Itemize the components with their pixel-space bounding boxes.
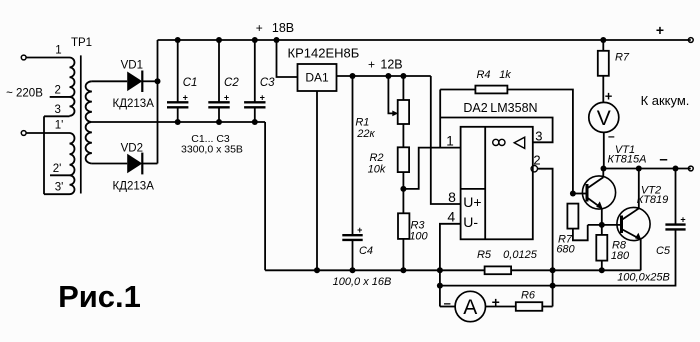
svg-text:3: 3 (54, 104, 60, 116)
node sense line at pin2 drop (550, 283, 556, 289)
svg-text:VD1: VD1 (121, 60, 143, 72)
wire: tap 3 lead (44, 115, 70, 117)
svg-text:LM358N: LM358N (490, 101, 537, 115)
svg-text:VD2: VD2 (121, 142, 143, 154)
svg-text:КТ819: КТ819 (637, 194, 669, 206)
node R3 bottom on bottom rail (400, 267, 406, 273)
wire: ground bus from secondary center tap (92, 121, 265, 123)
svg-text:–: – (444, 296, 451, 311)
svg-text:ТР1: ТР1 (71, 37, 92, 49)
wire: R2 to R3 (402, 172, 404, 213)
wire: R6 right to sense node riser (542, 306, 552, 308)
transformer TP1 primary winding lower (1'-2'-3') (70, 133, 75, 194)
svg-text:R6: R6 (521, 290, 536, 302)
resistor R1 22k (potentiometer) (398, 100, 409, 124)
svg-text:Рис.1: Рис.1 (58, 279, 141, 314)
svg-text:R5: R5 (477, 249, 492, 261)
node R1 wiper on +12V rail (385, 73, 391, 79)
node C2 bottom on ground bus (216, 119, 222, 125)
wire: VT2 collector to minus bus (638, 169, 640, 209)
svg-text:U-: U- (463, 214, 478, 230)
node pin2 line on bottom rail (550, 267, 556, 273)
svg-text:C5: C5 (656, 245, 671, 257)
svg-text:+: + (680, 215, 685, 225)
svg-text:3': 3' (55, 182, 64, 194)
svg-text:680: 680 (556, 244, 575, 256)
svg-text:+: + (183, 92, 188, 102)
wire: R3 to bottom rail (402, 239, 404, 270)
transistor VT1 KT815A (582, 176, 615, 209)
svg-text:22к: 22к (356, 128, 375, 140)
svg-text:+: + (224, 92, 229, 102)
wire: R7 to voltmeter (602, 76, 604, 103)
op-amp triangle symbol (514, 137, 525, 148)
node: rectifier output junction (155, 78, 161, 84)
wire: pin 2 to shunt sense node (538, 169, 553, 307)
wire: ground bus drop to bottom rail (264, 122, 266, 270)
svg-text:+: + (357, 225, 362, 235)
svg-text:12В: 12В (380, 58, 402, 72)
svg-text:1k: 1k (499, 69, 511, 81)
wire: +18V bus to DA1 input (277, 40, 298, 77)
wire: top terminal to primary start (pin 1) (26, 57, 69, 59)
svg-text:R2: R2 (369, 152, 383, 164)
voltmeter V (589, 102, 619, 132)
wire: 3' lead (44, 193, 70, 195)
node DA1 input on +18V bus (274, 37, 280, 43)
svg-text:1': 1' (55, 120, 64, 132)
svg-text:~ 220В: ~ 220В (6, 88, 43, 100)
wire: pin1 node over box to pin 3 (440, 118, 552, 143)
wire: rail to R1 (402, 76, 404, 100)
wire: VT2 emitter to bottom rail (640, 239, 642, 270)
svg-text:1: 1 (446, 134, 454, 149)
wire: VD1 cathode to junction (142, 80, 157, 82)
node C3 bottom on ground bus (252, 119, 258, 125)
svg-text:2: 2 (54, 85, 60, 97)
op-amp DA2 LM358N body (461, 127, 533, 240)
wire: DA1 ground pin down to bottom rail (316, 91, 318, 270)
node C1 top on +18V bus (175, 37, 181, 43)
wire: R8 bottom to bottom rail (601, 261, 603, 271)
svg-text:4: 4 (447, 209, 455, 225)
svg-text:R7: R7 (615, 52, 630, 64)
svg-text:3: 3 (535, 128, 542, 143)
svg-text:2': 2' (53, 163, 62, 175)
wire: VT2 base wire (588, 224, 622, 226)
svg-text:+: + (368, 58, 375, 72)
svg-text:V: V (597, 107, 611, 130)
svg-text:180: 180 (611, 250, 630, 262)
node pin4 line on bottom rail (437, 267, 443, 273)
svg-text:8: 8 (448, 189, 456, 205)
svg-text:+: + (260, 92, 265, 102)
capacitor C4 (352, 76, 354, 235)
diode VD1 (127, 72, 142, 92)
resistor R8 180 (596, 235, 607, 261)
node VT1 emitter / VT2 base / R8 (599, 222, 605, 228)
svg-text:+: + (656, 22, 664, 38)
svg-text:КД213А: КД213А (113, 98, 155, 110)
svg-text:A: A (463, 296, 477, 319)
diode VD2 (127, 154, 142, 174)
svg-text:2: 2 (533, 153, 540, 168)
terminal: mains input top (21, 55, 26, 60)
node sense line left (437, 283, 443, 289)
resistor R6 (516, 302, 543, 311)
op-amp pin 2 inversion bubble (531, 166, 537, 172)
svg-text:18В: 18В (272, 21, 294, 35)
capacitor C5 (675, 169, 677, 225)
transformer TP1 core (80, 55, 82, 193)
svg-text:+: + (256, 21, 263, 35)
wire: ammeter minus lead (440, 306, 455, 308)
svg-text:C2: C2 (224, 77, 239, 89)
node C2 top on +18V bus (216, 37, 222, 43)
wire: ammeter plus lead to R6 (486, 306, 516, 308)
wire: VT1 base wire (573, 193, 587, 195)
transformer TP1 secondary winding (86, 81, 92, 163)
node VT1 base (570, 191, 576, 197)
wire: pin 4 down to bottom rail and ammeter line (440, 224, 461, 307)
wire: tap 2' stub (50, 174, 70, 176)
wire: +12V rail from DA1 output (337, 75, 431, 77)
resistor R7 (voltmeter series) (598, 51, 609, 76)
node C3 top on +18V bus (252, 37, 258, 43)
node C5 top on minus bus (673, 166, 679, 172)
svg-text:DA1: DA1 (305, 71, 329, 85)
svg-text:R4: R4 (476, 69, 490, 81)
svg-text:+: + (605, 88, 613, 103)
svg-text:DA2: DA2 (463, 101, 487, 115)
svg-text:–: – (608, 129, 615, 143)
svg-text:U+: U+ (463, 194, 481, 210)
svg-text:R1: R1 (355, 117, 369, 129)
node R1 top on +12V rail (400, 73, 406, 79)
svg-text:100,0х25В: 100,0х25В (617, 272, 670, 284)
resistor R3 100 (398, 213, 409, 239)
wire: +18V top bus (158, 39, 691, 41)
svg-text:К аккум.: К аккум. (641, 93, 690, 108)
terminal: mains input bottom (21, 131, 26, 136)
wire: VD2 cathode riser to VD1 junction and up to +18V bus (157, 40, 159, 164)
wire: bottom terminal to primary 1' (26, 132, 69, 134)
node C4 bottom on bottom rail (350, 267, 356, 273)
svg-text:КД213А: КД213А (113, 181, 155, 193)
resistor R4 1k (475, 86, 507, 94)
svg-text:–: – (659, 151, 667, 168)
wire: R1 wiper from +12V rail (388, 76, 393, 113)
node divider tap R2-R3 (400, 186, 406, 192)
node C1 bottom on ground bus (175, 119, 181, 125)
resistor R2 10k (398, 147, 409, 172)
svg-text:КР142ЕН8Б: КР142ЕН8Б (288, 46, 360, 61)
transformer TP1 primary winding upper (1-2-3) (70, 58, 75, 116)
node voltmeter branch on +18V bus (600, 37, 606, 43)
wire: jumper 3 to 3' (43, 116, 45, 194)
svg-text:10k: 10k (368, 164, 386, 176)
svg-text:C4: C4 (359, 245, 373, 257)
svg-text:100: 100 (409, 231, 428, 243)
wire: bus to R7 (602, 40, 604, 51)
wire: R1 to R2 (402, 124, 404, 147)
wire: minus bus (604, 168, 691, 170)
node VT1 collector/voltmeter on minus bus (601, 166, 607, 172)
svg-text:3300,0 х 35В: 3300,0 х 35В (181, 144, 243, 156)
capacitor C2 (218, 40, 220, 102)
wire: ammeter sense line (440, 229, 676, 285)
wire: R4 left wire (440, 89, 475, 91)
svg-text:1: 1 (55, 45, 61, 57)
wire: divider tap to op-amp pin 1 line (403, 148, 460, 189)
wire: tap 2 stub (50, 96, 70, 98)
capacitor C3 (254, 40, 256, 102)
wire: R4 right to VT1 base node (507, 90, 573, 194)
voltage regulator DA1 KR142EN8B (298, 64, 337, 91)
wire: bottom rail left of R5 (265, 269, 485, 271)
wire: R7 680 jog to emitter node (573, 225, 588, 240)
svg-text:C3: C3 (260, 77, 275, 89)
svg-text:C1: C1 (183, 77, 198, 89)
terminal: + output (688, 38, 693, 43)
node C4 top on +12V rail (350, 73, 356, 79)
resistor R5 0,0125 shunt (485, 266, 512, 274)
svg-text:100,0 х 16В: 100,0 х 16В (333, 276, 392, 288)
wire: +12V rail corner down to pin 8 (431, 76, 461, 204)
R1 wiper arrow (392, 111, 398, 117)
terminal: - output (688, 166, 693, 171)
svg-text:КТ815А: КТ815А (608, 154, 647, 166)
wire: VD2 cathode to riser (142, 163, 157, 165)
node DA1 ground on bottom rail (314, 267, 320, 273)
capacitor C1 (177, 40, 179, 102)
wire: voltmeter to minus bus (603, 132, 605, 168)
wire: VT1 emitter down to VT2 base node (601, 208, 603, 235)
wire: bottom rail right of R5 (511, 269, 641, 271)
node R8 bottom on bottom rail (599, 267, 605, 273)
ammeter A (455, 291, 485, 321)
wire: secondary bottom to VD2 anode (92, 163, 127, 165)
svg-text:0,0125: 0,0125 (503, 249, 538, 261)
wire: pin1 node up to R4 line (439, 90, 441, 148)
wire: VT1 collector to minus bus (602, 169, 604, 178)
resistor R7 680 (VT1 base-emitter) (567, 204, 578, 229)
transistor VT2 KT819 (617, 207, 650, 240)
wire: secondary top to VD1 anode (92, 80, 127, 82)
op-amp gain symbol (infinity) (493, 139, 499, 145)
node VT2 collector on minus bus (636, 166, 642, 172)
